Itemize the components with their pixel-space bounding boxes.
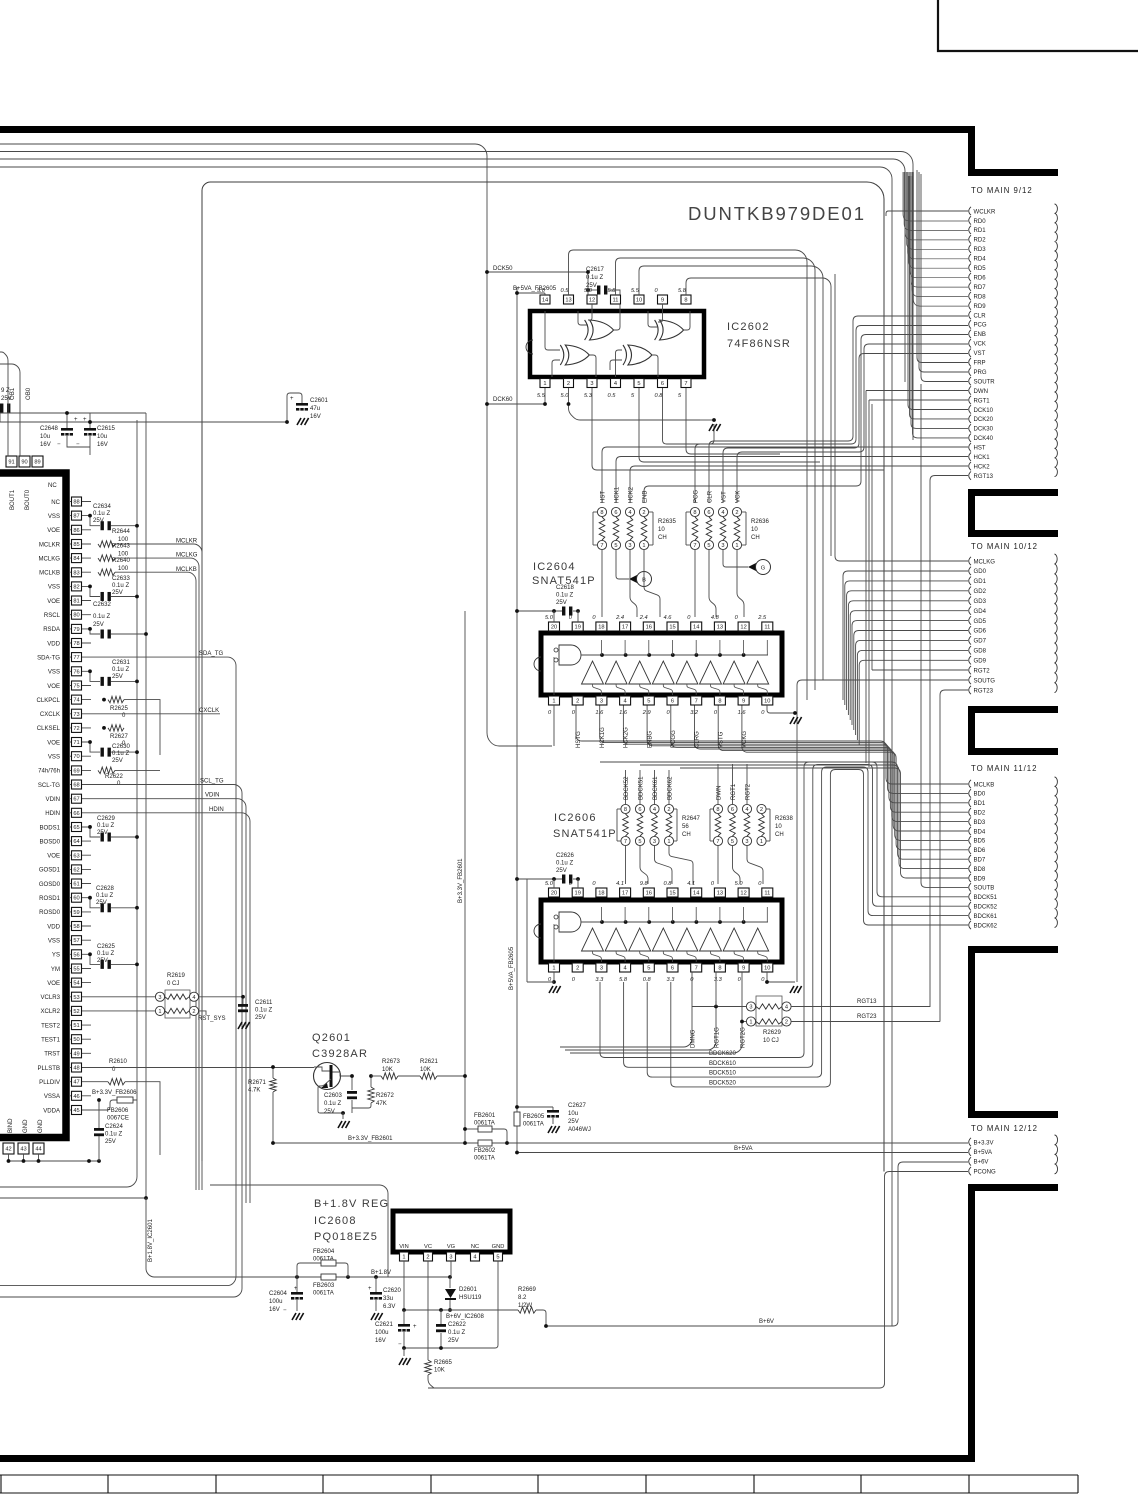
node B+6V connector entry <box>969 1157 971 1165</box>
IC pin 83 MCLKB <box>70 571 91 573</box>
svg-text:R2644: R2644 <box>112 529 130 535</box>
svg-text:51: 51 <box>73 1023 79 1029</box>
svg-text:3: 3 <box>449 1255 452 1261</box>
svg-text:R2672: R2672 <box>376 1093 394 1099</box>
svg-text:74F86NSR: 74F86NSR <box>727 338 791 350</box>
svg-text:RD5: RD5 <box>974 266 987 272</box>
svg-text:13: 13 <box>717 625 723 631</box>
ferrite bead FB2605 vertical <box>514 1112 520 1126</box>
svg-text:10: 10 <box>636 298 642 304</box>
node BD8 connector entry <box>969 864 971 872</box>
wire IC2606 pins 7 8 9 down <box>560 972 692 1047</box>
svg-text:C2633: C2633 <box>112 576 130 582</box>
node VDIN wire <box>91 799 246 1203</box>
svg-text:17: 17 <box>622 625 628 631</box>
svg-text:B+6V_IC2608: B+6V_IC2608 <box>446 1314 484 1320</box>
svg-text:B+1.8V_IC2601: B+1.8V_IC2601 <box>148 1218 154 1262</box>
svg-text:52: 52 <box>73 1009 79 1015</box>
node HCK2 connector entry <box>969 462 971 470</box>
svg-text:3: 3 <box>628 543 631 549</box>
IC2602 pin 13 top <box>564 295 574 304</box>
node BDCK61 connector entry <box>969 911 971 919</box>
svg-text:RGT13: RGT13 <box>974 474 994 480</box>
node VST connector entry <box>969 349 971 357</box>
svg-text:C2634: C2634 <box>93 504 111 510</box>
svg-text:4.1: 4.1 <box>616 881 624 887</box>
IC2602 pin 5 bottom <box>634 379 644 388</box>
wire bottom rail y1187 <box>0 1161 137 1187</box>
svg-text:25V: 25V <box>97 830 108 836</box>
IC2602 74F86NSR body <box>530 311 704 377</box>
IC pin 51 TEST2 <box>70 1024 91 1026</box>
svg-text:62: 62 <box>73 867 79 873</box>
svg-text:68: 68 <box>73 783 79 789</box>
wire RGT13 vertical <box>930 476 968 1008</box>
wire IC2602 top pins routing <box>569 250 808 700</box>
svg-text:19: 19 <box>575 625 581 631</box>
node RGT1 vertical label <box>732 764 734 804</box>
svg-text:IC2606: IC2606 <box>554 812 597 824</box>
wire RGT2 <box>872 669 968 671</box>
wire IC2602 bottom pins routing <box>569 388 701 420</box>
IC2604 pin 2 bottom <box>572 696 583 705</box>
IC pin 80 RSCL <box>70 614 91 616</box>
svg-text:25V: 25V <box>112 758 123 764</box>
svg-text:14: 14 <box>693 891 699 897</box>
IC2606 pin 10 bottom <box>762 963 773 972</box>
svg-text:1: 1 <box>552 699 555 705</box>
node RD6 connector entry <box>969 273 971 281</box>
svg-text:5.8: 5.8 <box>678 288 687 294</box>
svg-text:10K: 10K <box>420 1067 431 1073</box>
node RGT13 label <box>791 1006 930 1008</box>
node BD4 connector entry <box>969 827 971 835</box>
node PRG connector entry <box>969 367 971 375</box>
IC pin 66 HDIN <box>70 812 91 814</box>
svg-text:B+6V: B+6V <box>974 1160 989 1166</box>
svg-text:NC: NC <box>51 500 60 506</box>
IC2604 pin 3 bottom <box>596 696 607 705</box>
svg-text:BD0: BD0 <box>974 792 986 798</box>
node RD1 connector entry <box>969 226 971 234</box>
svg-text:1: 1 <box>158 1009 161 1015</box>
svg-text:64: 64 <box>73 839 79 845</box>
svg-text:RGT13: RGT13 <box>857 999 877 1005</box>
IC2606 pin 3 bottom <box>596 963 607 972</box>
svg-text:BDCK62: BDCK62 <box>974 923 998 929</box>
node SOUTB connector entry <box>969 883 971 891</box>
svg-text:78: 78 <box>73 641 79 647</box>
svg-text:BDCK620: BDCK620 <box>709 1051 737 1057</box>
node MCLKB connector entry <box>969 780 971 788</box>
wire top rail y413 <box>0 412 146 414</box>
svg-text:C2603: C2603 <box>324 1093 342 1099</box>
svg-text:SOUTB: SOUTB <box>974 886 995 892</box>
svg-text:2: 2 <box>785 1020 788 1026</box>
svg-text:4: 4 <box>785 1005 788 1011</box>
svg-text:5: 5 <box>707 543 710 549</box>
IC2604 pin 8 bottom <box>714 696 725 705</box>
capacitor C2634 <box>90 516 100 526</box>
svg-text:0 CJ: 0 CJ <box>167 981 179 987</box>
svg-text:2: 2 <box>576 966 579 972</box>
svg-text:45: 45 <box>73 1108 79 1114</box>
svg-text:CLKSEL: CLKSEL <box>37 726 61 732</box>
svg-text:2: 2 <box>576 699 579 705</box>
svg-text:10: 10 <box>751 527 758 533</box>
svg-text:10: 10 <box>764 966 770 972</box>
IC2604 pin 18 top <box>596 622 607 631</box>
svg-text:3: 3 <box>745 839 748 845</box>
svg-text:46: 46 <box>73 1094 79 1100</box>
svg-text:3: 3 <box>600 699 603 705</box>
svg-text:C2622: C2622 <box>448 1322 466 1328</box>
svg-text:C2631: C2631 <box>112 660 130 666</box>
svg-text:44: 44 <box>35 1147 41 1153</box>
svg-text:B+5VA_FB2605: B+5VA_FB2605 <box>509 946 515 990</box>
svg-text:4.6: 4.6 <box>664 615 673 621</box>
svg-text:18: 18 <box>598 625 604 631</box>
IC2604 pin 16 top <box>643 622 654 631</box>
svg-text:G: G <box>761 566 765 572</box>
svg-text:BDCK510: BDCK510 <box>709 1071 737 1077</box>
svg-text:25V: 25V <box>448 1338 459 1344</box>
svg-text:2.5: 2.5 <box>757 615 767 621</box>
IC2604 pin 12 top <box>738 622 749 631</box>
XOR gate C <box>565 345 589 365</box>
node BD6 connector entry <box>969 846 971 854</box>
IC2602 pin 10 top <box>634 295 644 304</box>
IC2602 pin 3 bottom <box>587 379 597 388</box>
svg-text:VOE: VOE <box>47 528 60 534</box>
wire SOUTB <box>921 384 968 887</box>
IC2604 pin 6 bottom <box>667 696 678 705</box>
IC2606 pin 8 bottom <box>714 963 725 972</box>
svg-text:ENB: ENB <box>643 491 649 503</box>
IC2604 pin 17 top <box>620 622 631 631</box>
IC pin 55 YM <box>70 968 91 970</box>
svg-text:BD1: BD1 <box>974 801 986 807</box>
svg-text:25V: 25V <box>112 590 123 596</box>
IC bottom pins 42 43 44 <box>3 1143 14 1154</box>
svg-text:49: 49 <box>73 1051 79 1057</box>
node GD1 connector entry <box>969 577 971 585</box>
IC pin 47 PLLDIV <box>70 1081 91 1083</box>
svg-text:+: + <box>83 417 87 423</box>
svg-text:B+3.3V_FB2601: B+3.3V_FB2601 <box>348 1136 393 1142</box>
svg-text:YS: YS <box>52 953 60 959</box>
node RD9 connector entry <box>969 301 971 309</box>
svg-text:33u: 33u <box>383 1296 393 1302</box>
IC pin 58 VDD <box>70 925 91 927</box>
ground Q2601 <box>341 1111 345 1115</box>
svg-text:−: − <box>398 1342 402 1348</box>
svg-text:VSTG: VSTG <box>718 731 724 748</box>
svg-text:VSS: VSS <box>48 938 60 944</box>
svg-text:4: 4 <box>628 510 631 516</box>
wire IC2608 ground node <box>404 1261 498 1348</box>
wire bus GD0-GD9 fan <box>843 571 968 700</box>
svg-text:5: 5 <box>647 699 650 705</box>
capacitor C2603 <box>351 1076 353 1090</box>
wire bus BDCK51 BDCK52 BDCK61 BDCK62 loop <box>600 762 968 1058</box>
svg-text:FB2601: FB2601 <box>474 1113 496 1119</box>
node PCG connector entry <box>969 320 971 328</box>
svg-text:80: 80 <box>73 613 79 619</box>
svg-text:3: 3 <box>590 381 593 387</box>
svg-text:1: 1 <box>642 543 645 549</box>
cable bundle wavy line TO MAIN 12/12 <box>1055 1135 1058 1174</box>
svg-text:11: 11 <box>613 298 619 304</box>
wire top bus line 2 <box>0 152 913 441</box>
svg-text:5: 5 <box>637 381 640 387</box>
node SOUTG connector entry <box>969 676 971 684</box>
svg-text:0.5: 0.5 <box>561 288 570 294</box>
IC pin 75 VOE <box>70 685 91 687</box>
svg-text:54: 54 <box>73 981 79 987</box>
svg-text:RD6: RD6 <box>974 275 987 281</box>
node GD4 connector entry <box>969 606 971 614</box>
svg-text:55: 55 <box>73 967 79 973</box>
IC2606 pin 20 top <box>549 888 560 897</box>
svg-text:MCLKB: MCLKB <box>974 782 995 788</box>
node BD9 connector entry <box>969 874 971 882</box>
wire top bus line 3 <box>0 159 905 382</box>
node BD0 connector entry <box>969 789 971 797</box>
node GD2 connector entry <box>969 587 971 595</box>
IC2602 pin 2 bottom <box>564 379 574 388</box>
node BDCK62 vertical label <box>668 770 670 804</box>
svg-text:74: 74 <box>73 698 79 704</box>
svg-text:PLLSTB: PLLSTB <box>37 1066 60 1072</box>
svg-text:100: 100 <box>118 566 129 572</box>
svg-text:VSS: VSS <box>48 670 60 676</box>
svg-text:R2673: R2673 <box>382 1059 400 1065</box>
border separator between TO MAIN 9 and 10 <box>968 489 1058 496</box>
capacitor C2630 <box>90 742 100 752</box>
svg-text:VCKG: VCKG <box>742 731 748 748</box>
svg-text:MCLKG: MCLKG <box>38 556 60 562</box>
svg-text:C2625: C2625 <box>97 944 115 950</box>
resistor network R2638 <box>713 804 722 813</box>
capacitor C2631 <box>90 671 100 681</box>
svg-text:4: 4 <box>473 1255 476 1261</box>
svg-text:BDCK61: BDCK61 <box>974 914 998 920</box>
IC2602 pin 14 top <box>540 295 550 304</box>
svg-text:8: 8 <box>693 510 696 516</box>
svg-text:9.8: 9.8 <box>640 881 649 887</box>
svg-text:0.1u Z: 0.1u Z <box>105 1132 122 1138</box>
svg-text:R2671: R2671 <box>248 1080 266 1086</box>
svg-text:20: 20 <box>551 625 557 631</box>
node BDCK62 connector entry <box>969 921 971 929</box>
svg-text:6: 6 <box>614 510 617 516</box>
svg-text:5.5: 5.5 <box>537 393 546 399</box>
svg-text:82: 82 <box>73 584 79 590</box>
svg-text:0.1u Z: 0.1u Z <box>97 951 114 957</box>
svg-text:VSS: VSS <box>48 755 60 761</box>
wire top bus line 4 outer loop <box>0 167 892 1326</box>
IC2604 pin 10 bottom <box>762 696 773 705</box>
svg-text:C2628: C2628 <box>96 886 114 892</box>
svg-text:0.1u Z: 0.1u Z <box>112 751 129 757</box>
svg-text:C2632: C2632 <box>93 602 111 608</box>
svg-text:TO MAIN 11/12: TO MAIN 11/12 <box>971 764 1037 773</box>
svg-text:9: 9 <box>742 699 745 705</box>
IC2602 pin 11 top <box>611 295 621 304</box>
IC pin 65 BODS1 <box>70 826 91 828</box>
title block table bottom <box>0 1475 1078 1493</box>
svg-text:VDDA: VDDA <box>43 1108 61 1114</box>
svg-text:VSS: VSS <box>48 585 60 591</box>
border bottom <box>0 1455 975 1462</box>
IC pin 53 VCLR3 <box>70 996 91 998</box>
svg-text:4: 4 <box>624 699 627 705</box>
capacitor C2628 <box>90 898 100 908</box>
svg-text:DUNTKB979DE01: DUNTKB979DE01 <box>688 203 866 224</box>
svg-text:IC2604: IC2604 <box>533 561 576 573</box>
svg-text:4.7K: 4.7K <box>248 1088 260 1094</box>
svg-text:C2618: C2618 <box>556 585 574 591</box>
node RD4 connector entry <box>969 254 971 262</box>
node BD1 connector entry <box>969 799 971 807</box>
svg-text:TEST1: TEST1 <box>41 1038 60 1044</box>
svg-text:B+5VA_FB2605: B+5VA_FB2605 <box>513 286 557 292</box>
svg-text:FB2603: FB2603 <box>313 1283 335 1289</box>
svg-text:HST: HST <box>974 446 986 452</box>
svg-text:C2627: C2627 <box>568 1103 586 1109</box>
resistor network R2629 <box>756 996 782 1026</box>
IC2604 pin 5 bottom <box>643 696 654 705</box>
svg-text:BIND: BIND <box>8 1118 14 1133</box>
IC pin 61 GOSD0 <box>70 883 91 885</box>
svg-text:91: 91 <box>8 460 14 466</box>
svg-text:6: 6 <box>661 381 664 387</box>
IC pin 70 VSS <box>70 755 91 757</box>
svg-text:0.1u Z: 0.1u Z <box>112 667 129 673</box>
svg-text:VIN: VIN <box>399 1244 408 1250</box>
svg-text:5.0: 5.0 <box>545 615 554 621</box>
node HST connector entry <box>969 443 971 451</box>
node BDCK51 vertical label <box>639 770 641 804</box>
wire B+1.8V IC2601 net <box>0 1197 146 1199</box>
svg-text:VCLR3: VCLR3 <box>41 995 61 1001</box>
IC pin 79 RSDA <box>70 628 91 630</box>
IC2604 pin 4 bottom <box>620 696 631 705</box>
svg-text:BDCK52: BDCK52 <box>624 776 630 800</box>
svg-text:0.1u Z: 0.1u Z <box>255 1008 272 1014</box>
capacitor C2633 <box>90 586 100 596</box>
node RD7 connector entry <box>969 282 971 290</box>
svg-text:66: 66 <box>73 811 79 817</box>
node DWN connector entry <box>969 386 971 394</box>
svg-text:50: 50 <box>73 1037 79 1043</box>
svg-text:VCK: VCK <box>736 491 742 503</box>
svg-text:RGT2: RGT2 <box>746 783 752 800</box>
node DCK20 connector entry <box>969 415 971 423</box>
node ENB connector entry <box>969 330 971 338</box>
node RGT23 connector entry <box>969 686 971 694</box>
cable bundle wavy line TO MAIN 10/12 <box>1055 554 1058 693</box>
svg-text:0061TA: 0061TA <box>474 1156 496 1162</box>
wire MCLKG long <box>835 274 968 561</box>
svg-text:9: 9 <box>742 966 745 972</box>
wire B+6V loop <box>546 1162 968 1326</box>
svg-text:DWN: DWN <box>717 786 723 800</box>
svg-text:5.0: 5.0 <box>561 393 570 399</box>
svg-text:IC2602: IC2602 <box>727 321 770 333</box>
IC2604 pin 7 bottom <box>691 696 702 705</box>
svg-text:+: + <box>413 1324 417 1330</box>
IC2602 pin 12 top <box>587 295 597 304</box>
svg-text:17: 17 <box>622 891 628 897</box>
wire OB1 loop <box>0 352 8 456</box>
svg-text:R2643: R2643 <box>112 544 130 550</box>
cable bundle wavy line TO MAIN 11/12 <box>1055 777 1058 927</box>
svg-text:13: 13 <box>565 298 571 304</box>
off-page arrow B <box>616 550 629 579</box>
IC pin 71 VOE <box>70 741 91 743</box>
IC pin 46 VSSA <box>70 1095 91 1097</box>
wire top rail y422 to C2601 <box>0 421 287 423</box>
svg-text:SDA-TG: SDA-TG <box>37 655 60 661</box>
svg-text:R2665: R2665 <box>434 1360 452 1366</box>
wire IC2606 pin1 ground <box>553 972 555 982</box>
svg-text:DCK50: DCK50 <box>493 266 513 272</box>
IC pin 77 SDA-TG <box>70 656 91 658</box>
svg-text:73: 73 <box>73 712 79 718</box>
svg-text:VDIN: VDIN <box>46 797 60 803</box>
wire PCONG loop <box>428 1172 968 1389</box>
node HCK1 connector entry <box>969 453 971 461</box>
border right below TO MAIN 12 <box>968 1184 1058 1191</box>
svg-text:16V: 16V <box>375 1338 386 1344</box>
IC pin 68 SCL-TG <box>70 784 91 786</box>
svg-text:VST: VST <box>974 351 986 357</box>
svg-text:VOE: VOE <box>47 684 60 690</box>
IC2606 pin 9 bottom <box>738 963 749 972</box>
svg-text:56: 56 <box>73 952 79 958</box>
resistor R2622 <box>98 767 115 774</box>
svg-text:83: 83 <box>73 570 79 576</box>
IC pin 67 VDIN <box>70 798 91 800</box>
svg-text:HCK1G: HCK1G <box>600 727 606 748</box>
XOR gate D <box>628 345 652 365</box>
svg-text:HCK2: HCK2 <box>629 486 635 503</box>
svg-text:8: 8 <box>600 510 603 516</box>
node DCK40 connector entry <box>969 434 971 442</box>
svg-text:FB2602: FB2602 <box>474 1148 496 1154</box>
svg-text:8: 8 <box>718 966 721 972</box>
svg-text:RD2: RD2 <box>974 238 987 244</box>
svg-text:HCK1: HCK1 <box>974 455 991 461</box>
svg-text:47K: 47K <box>376 1101 387 1107</box>
svg-text:−: − <box>283 1308 287 1314</box>
node B+5VA connector entry <box>969 1148 971 1156</box>
svg-text:7: 7 <box>624 839 627 845</box>
svg-text:10u: 10u <box>568 1111 578 1117</box>
svg-text:0.8: 0.8 <box>655 393 664 399</box>
svg-text:GOSD1: GOSD1 <box>39 868 61 874</box>
wire DCK10-DCK40 <box>908 176 968 410</box>
capacitor C2611 <box>242 997 244 1004</box>
node RD0 connector entry <box>969 216 971 224</box>
svg-text:6: 6 <box>707 510 710 516</box>
IC pin 52 XCLR2 <box>70 1010 91 1012</box>
svg-text:VSSA: VSSA <box>44 1094 61 1100</box>
svg-text:C2648: C2648 <box>40 426 58 432</box>
svg-text:PCONG: PCONG <box>974 1169 996 1175</box>
